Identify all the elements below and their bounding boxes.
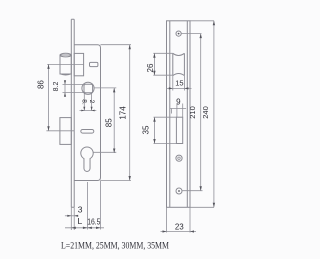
lock body side view (74, 45, 100, 181)
dim 8.2 bottom line (80, 110, 97, 112)
svg-text:35: 35 (142, 125, 151, 134)
arrows dim 15 (outside) (169, 87, 173, 89)
cam hole (90, 62, 98, 66)
dim 23 extensions (167, 207, 191, 232)
arrows dim 210 (200, 34, 202, 39)
latch inner housing (74, 53, 83, 75)
svg-text:8.2: 8.2 (53, 82, 60, 92)
dim 210 line (200, 34, 202, 191)
svg-text:174: 174 (119, 106, 128, 120)
dim 23 line (161, 231, 197, 233)
cylinder center leader (94, 151, 117, 153)
screw hole bottom (176, 188, 182, 194)
svg-text:16.5: 16.5 (87, 218, 101, 227)
dim 15 line (166, 87, 192, 89)
arrows dim 86 (47, 64, 49, 69)
top screw leader (181, 33, 201, 35)
body top extension (101, 44, 132, 46)
plate bottom extension (190, 206, 214, 208)
dim 15 extensions (173, 76, 185, 91)
dim 3 line (65, 215, 78, 217)
screw hole middle inner (178, 157, 180, 159)
dim 86 line (48, 64, 50, 130)
latch cutout (173, 53, 185, 75)
svg-text:23: 23 (175, 222, 184, 231)
front plate fold lines (170, 21, 188, 208)
euro cylinder (81, 147, 93, 171)
dim 9 line (170, 108, 186, 110)
svg-text:240: 240 (201, 106, 210, 119)
arrows dim 8.2 left (outside) (64, 80, 66, 84)
dim 9 ticks (172, 104, 183, 118)
screw hole top (176, 31, 181, 36)
arrows dim 174 (129, 45, 131, 50)
arrows dim 35 (153, 117, 155, 122)
arrows dim 26 (153, 53, 155, 58)
arrows bottom L dim (71, 227, 76, 229)
body right bottom extension (100, 181, 102, 230)
faceplate side view (71, 19, 74, 207)
hub center leader (94, 87, 116, 89)
screw slot (81, 130, 94, 134)
dim 8.2 left line (64, 80, 66, 97)
front plate outer (167, 21, 191, 208)
bottom screw leader (182, 190, 203, 192)
svg-text:85: 85 (105, 118, 114, 127)
latch center line (47, 63, 83, 65)
arrows dim 23 (outside) (163, 230, 167, 232)
dim 26 line (153, 53, 155, 75)
svg-text:2: 2 (88, 100, 95, 104)
dim 240 line (213, 21, 215, 208)
svg-text:26: 26 (146, 63, 155, 72)
faceplate thickness extensions (71, 207, 74, 230)
dim 35 line (154, 117, 156, 143)
arrows dim 3 (outside) (67, 215, 71, 217)
bottom dim line L and 16.5 (65, 227, 104, 229)
svg-text:86: 86 (37, 80, 46, 89)
svg-text:9: 9 (176, 98, 181, 107)
svg-text:L: L (78, 216, 83, 226)
body bottom extension (101, 180, 132, 182)
hub circle (82, 82, 94, 94)
dim 174 line (129, 45, 131, 181)
arrows dim 85 (113, 88, 115, 93)
hub square (84, 84, 93, 92)
svg-text:3: 3 (78, 204, 83, 214)
hub bottom extensions (84, 94, 91, 112)
dim 26 extensions (153, 53, 173, 75)
arrows dim 8.2 bottom (outside) (81, 110, 84, 112)
dim 85 line (113, 88, 115, 153)
screw hole middle (176, 155, 182, 161)
deadbolt cutout (176, 117, 182, 143)
dim 35 extensions (154, 117, 177, 143)
arrows dim 240 (213, 21, 215, 26)
hub left extensions (63, 84, 85, 92)
deadbolt (60, 118, 71, 145)
cylinder center bottom extension (86, 182, 88, 230)
svg-text:15: 15 (175, 79, 183, 88)
latch roller bolt (60, 53, 71, 75)
plate top extension (190, 20, 214, 22)
svg-text:210: 210 (188, 106, 197, 119)
svg-text:L=21MM, 25MM, 30MM, 35MM: L=21MM, 25MM, 30MM, 35MM (61, 241, 169, 251)
svg-text:8.: 8. (81, 99, 88, 105)
dim 86 bottom extension (46, 130, 74, 132)
